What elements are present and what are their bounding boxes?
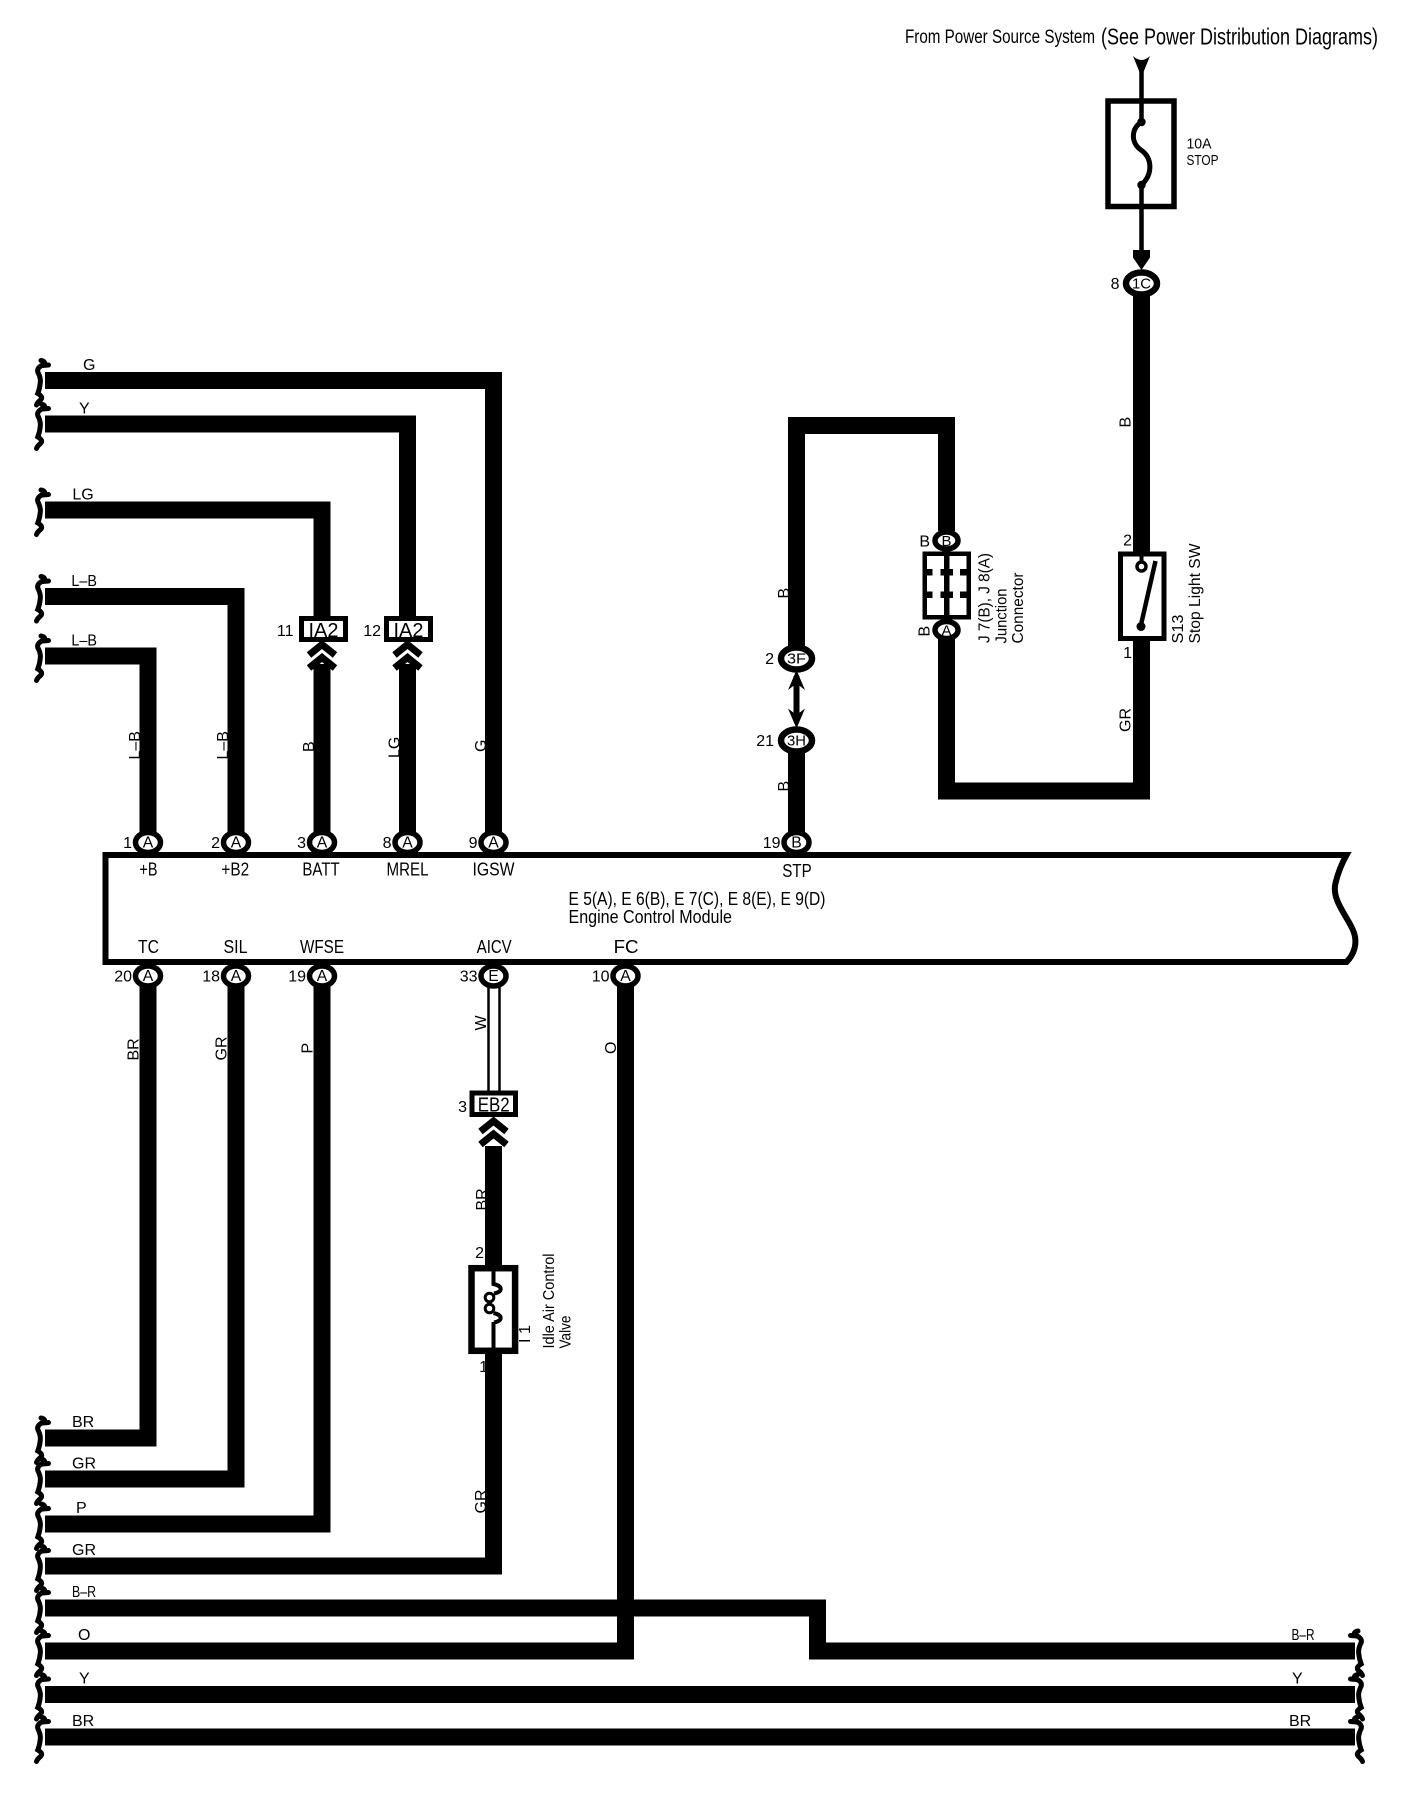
svg-text:IGSW: IGSW [473, 860, 515, 880]
rotated label O column FC [603, 1042, 620, 1054]
wire B from 3H to STP pin 19 [788, 750, 805, 833]
wire LG (left) to IA2 11 [45, 510, 322, 616]
wire BR across bottom [45, 1729, 1355, 1746]
break symbol wire L-B upper left [37, 577, 49, 622]
wire O from FC pin 10 down to left [45, 986, 626, 1651]
connector 1C ellipse [1126, 273, 1157, 295]
svg-text:10A: 10A [1187, 137, 1212, 153]
svg-text:1: 1 [1123, 645, 1132, 662]
pin 2 A (+B2) [224, 833, 249, 853]
rotated label L-B column +B2 [215, 731, 232, 759]
rotated label B column BATT [301, 741, 318, 752]
pin 1 A (+B) [136, 833, 161, 853]
rotated label L-B column +B [127, 731, 144, 759]
wire B from connector 1C to stop light switch pin 2 [1133, 295, 1150, 552]
svg-text:2: 2 [475, 1245, 484, 1262]
svg-text:BR: BR [126, 1038, 143, 1060]
pin 8 A (MREL) [395, 833, 420, 853]
svg-text:GR: GR [72, 1456, 96, 1473]
pin 19 B (STP) [784, 833, 809, 853]
svg-text:A: A [143, 968, 154, 985]
wire B-R from left stepping down to right [45, 1608, 1355, 1651]
wire G (left) to IGSW [45, 381, 494, 835]
svg-text:B: B [942, 534, 952, 550]
svg-text:3: 3 [297, 835, 306, 852]
connector 3H ellipse [781, 730, 812, 752]
break symbol wire B-R right [1351, 1631, 1363, 1676]
svg-text:2: 2 [765, 651, 774, 668]
svg-text:B: B [776, 588, 793, 599]
svg-text:A: A [231, 835, 242, 852]
svg-text:9: 9 [469, 835, 478, 852]
pin 19 A (WFSE) [310, 966, 335, 986]
break symbol wire B-R bottom left [37, 1588, 49, 1633]
svg-text:J 7(B), J 8(A): J 7(B), J 8(A) [977, 553, 994, 643]
junction connector circle A [935, 622, 958, 639]
svg-text:O: O [78, 1627, 90, 1644]
arrowhead into connector 1C [1133, 250, 1150, 270]
svg-text:+B2: +B2 [221, 860, 249, 880]
pin 18 A (SIL) [224, 966, 249, 986]
svg-text:20: 20 [114, 969, 132, 986]
svg-text:IA2: IA2 [394, 620, 424, 642]
svg-text:+B: +B [139, 860, 157, 880]
IA2 connector box 12 [387, 619, 431, 640]
svg-text:G: G [83, 357, 95, 374]
wire BR from EB2 to idle air control valve [485, 1146, 502, 1266]
svg-text:L–B: L–B [215, 731, 232, 759]
pin 3 A (BATT) [310, 833, 335, 853]
svg-text:Y: Y [1292, 1671, 1303, 1688]
svg-text:10: 10 [592, 969, 610, 986]
svg-text:A: A [231, 968, 242, 985]
svg-text:BR: BR [474, 1188, 491, 1210]
wire GR from idle air control valve to left [45, 1353, 494, 1566]
valve coil [494, 1271, 501, 1294]
svg-text:W: W [473, 1015, 490, 1031]
svg-text:18: 18 [202, 969, 220, 986]
break symbol wire O bottom left [37, 1631, 49, 1676]
svg-text:FC: FC [614, 937, 639, 957]
break symbol wire P bottom left [37, 1504, 49, 1549]
svg-text:P: P [76, 1500, 87, 1517]
wire from fuse to connector 1C [1139, 206, 1144, 252]
wire Y across bottom [45, 1686, 1355, 1703]
chevron arrows under IA2 11 [309, 645, 335, 669]
svg-text:Idle Air Control: Idle Air Control [541, 1254, 558, 1349]
junction connector box J7(B) J8(A) [925, 554, 969, 618]
svg-text:Stop Light SW: Stop Light SW [1187, 543, 1204, 643]
svg-text:GR: GR [72, 1542, 96, 1559]
label B above 3F [776, 588, 793, 599]
idle air control valve I 1 box [472, 1268, 516, 1351]
pin 33 E (AICV) [481, 966, 506, 986]
ECM box E5(A)-E9(D) [106, 855, 1356, 962]
label S13 [1170, 615, 1187, 644]
svg-text:B–R: B–R [1292, 1627, 1315, 1644]
label GR on wire below switch [1118, 708, 1135, 732]
rotated label P column WFSE [300, 1043, 317, 1054]
chevron arrows under IA2 12 [395, 645, 421, 669]
label B left of circle A (rotated) [917, 626, 934, 637]
svg-text:L–B: L–B [71, 573, 97, 590]
svg-text:SIL: SIL [224, 937, 248, 957]
svg-text:A: A [942, 624, 952, 640]
svg-text:A: A [317, 968, 328, 985]
svg-text:Engine Control Module: Engine Control Module [569, 906, 733, 927]
svg-text:Y: Y [79, 401, 90, 418]
chevron arrows under EB2 [481, 1121, 507, 1145]
double arrow between 3F and 3H [794, 676, 800, 722]
svg-text:BATT: BATT [302, 860, 339, 880]
pin 10 A (FC) [613, 966, 638, 986]
svg-text:LG: LG [387, 737, 404, 758]
svg-text:B: B [919, 534, 930, 551]
switch top contact [1140, 551, 1144, 562]
thin double wire W from AICV pin 33 to EB2 [487, 986, 490, 1092]
wire B from 3F up over to junction connector B [797, 426, 947, 648]
svg-text:E: E [488, 968, 499, 985]
svg-text:Valve: Valve [558, 1316, 575, 1349]
svg-text:G: G [473, 740, 490, 752]
svg-text:AICV: AICV [477, 937, 512, 957]
label Idle Air Control [541, 1254, 558, 1349]
svg-text:L–B: L–B [127, 731, 144, 759]
svg-text:2: 2 [211, 835, 220, 852]
wire P from WFSE pin 19 to left [45, 986, 322, 1524]
label J 7(B), J 8(A) [977, 553, 994, 643]
switch lever [1141, 561, 1156, 627]
svg-text:TC: TC [138, 937, 159, 957]
svg-text:GR: GR [1118, 708, 1135, 732]
break symbol wire Y right [1351, 1675, 1363, 1720]
junction connector pin nubs row 2 [926, 592, 933, 599]
svg-text:1C: 1C [1132, 276, 1151, 293]
junction connector circle B [935, 532, 958, 549]
label I 1 [517, 1325, 534, 1343]
svg-text:B: B [917, 626, 934, 637]
svg-text:IA2: IA2 [309, 620, 339, 642]
pin 9 A (IGSW) [481, 833, 506, 853]
wire Y (left) to IA2 12 [45, 424, 408, 616]
rotated label G column IGSW [473, 740, 490, 752]
wire LG from IA2 12 to MREL [399, 664, 416, 834]
stop light switch S13 box [1121, 554, 1165, 639]
rotated label GR column SIL [214, 1037, 231, 1061]
svg-text:EB2: EB2 [478, 1095, 510, 1117]
svg-text:3F: 3F [787, 651, 806, 668]
svg-text:12: 12 [363, 623, 381, 640]
svg-text:P: P [300, 1043, 317, 1054]
EB2 connector box [472, 1093, 516, 1115]
svg-text:A: A [488, 835, 499, 852]
svg-text:2: 2 [1123, 533, 1132, 550]
svg-text:S13: S13 [1170, 615, 1187, 644]
rotated label W [473, 1015, 490, 1031]
svg-text:STP: STP [782, 861, 812, 881]
svg-text:L–B: L–B [71, 633, 97, 650]
svg-text:33: 33 [460, 969, 478, 986]
svg-text:A: A [402, 835, 413, 852]
rotated label GR below valve [473, 1490, 490, 1514]
rotated label BR column TC [126, 1038, 143, 1060]
fuse element S-curve [1139, 101, 1144, 122]
rotated label BR above valve [474, 1188, 491, 1210]
svg-text:1: 1 [479, 1359, 488, 1376]
wire L-B (left) to +B [45, 656, 148, 834]
wire B from IA2 11 to BATT [314, 664, 331, 834]
svg-text:11: 11 [277, 623, 294, 640]
break symbol wire LG left [37, 490, 49, 535]
svg-text:STOP: STOP [1187, 153, 1219, 169]
svg-text:19: 19 [763, 835, 781, 852]
junction connector pin nubs row 1 [926, 569, 933, 576]
svg-text:From Power Source System: From Power Source System [905, 26, 1095, 48]
break symbol wire L-B lower left [37, 636, 49, 681]
break symbol wire GR 4th bottom left [37, 1546, 49, 1591]
svg-text:WFSE: WFSE [300, 937, 344, 957]
svg-text:B: B [791, 835, 802, 852]
svg-text:MREL: MREL [387, 860, 429, 880]
svg-text:3H: 3H [787, 733, 806, 750]
pin 20 A (TC) [136, 966, 161, 986]
wire GR from SIL pin 18 to left [45, 986, 236, 1479]
svg-text:Junction: Junction [994, 589, 1011, 644]
arrowhead down at top [1133, 56, 1150, 77]
label Valve [558, 1316, 575, 1349]
svg-text:A: A [143, 835, 154, 852]
break symbol wire G left [37, 361, 49, 406]
connector 3F ellipse [781, 648, 812, 670]
label Connector [1010, 573, 1027, 644]
break symbol wire Y bottom left [37, 1675, 49, 1720]
svg-text:I 1: I 1 [517, 1325, 534, 1343]
svg-text:A: A [317, 835, 328, 852]
svg-text:GR: GR [214, 1037, 231, 1061]
svg-text:Connector: Connector [1010, 573, 1027, 644]
wire L-B (left) to +B2 [45, 597, 236, 835]
wire from junction connector A down right up to stop light switch pin 1 [947, 639, 1142, 791]
svg-text:8: 8 [1111, 276, 1120, 293]
svg-text:GR: GR [473, 1490, 490, 1514]
break symbol wire BR very bottom left [37, 1717, 49, 1762]
IA2 connector box 11 [302, 619, 346, 640]
label Junction [994, 589, 1011, 644]
svg-text:B: B [1118, 417, 1135, 428]
svg-text:(See Power Distribution Diagra: (See Power Distribution Diagrams) [1101, 24, 1378, 50]
svg-text:19: 19 [288, 969, 306, 986]
svg-text:BR: BR [1289, 1713, 1311, 1730]
svg-text:BR: BR [72, 1414, 94, 1431]
break symbol wire GR 2nd bottom left [37, 1459, 49, 1504]
svg-text:B: B [301, 741, 318, 752]
svg-text:LG: LG [72, 487, 93, 504]
rotated label LG column MREL [387, 737, 404, 758]
svg-text:A: A [620, 968, 631, 985]
svg-text:Y: Y [79, 1671, 90, 1688]
svg-text:21: 21 [756, 733, 774, 750]
break symbol wire BR bottom left [37, 1418, 49, 1463]
break symbol wire Y left [37, 404, 49, 449]
label B on wire 1C to switch [1118, 417, 1135, 428]
svg-text:B–R: B–R [72, 1584, 96, 1601]
svg-text:8: 8 [383, 835, 392, 852]
svg-text:3: 3 [458, 1099, 467, 1116]
wire from power source into fuse [1139, 64, 1144, 100]
label B below 3H [776, 781, 793, 792]
svg-text:B: B [776, 781, 793, 792]
switch bottom contact [1137, 622, 1146, 631]
wire BR from TC pin 20 to left [45, 986, 148, 1438]
svg-text:BR: BR [72, 1713, 94, 1730]
svg-text:O: O [603, 1042, 620, 1054]
svg-text:1: 1 [123, 835, 132, 852]
break symbol wire BR right [1351, 1717, 1363, 1762]
fuse 10A STOP box [1108, 101, 1174, 207]
label Stop Light SW [1187, 543, 1204, 643]
